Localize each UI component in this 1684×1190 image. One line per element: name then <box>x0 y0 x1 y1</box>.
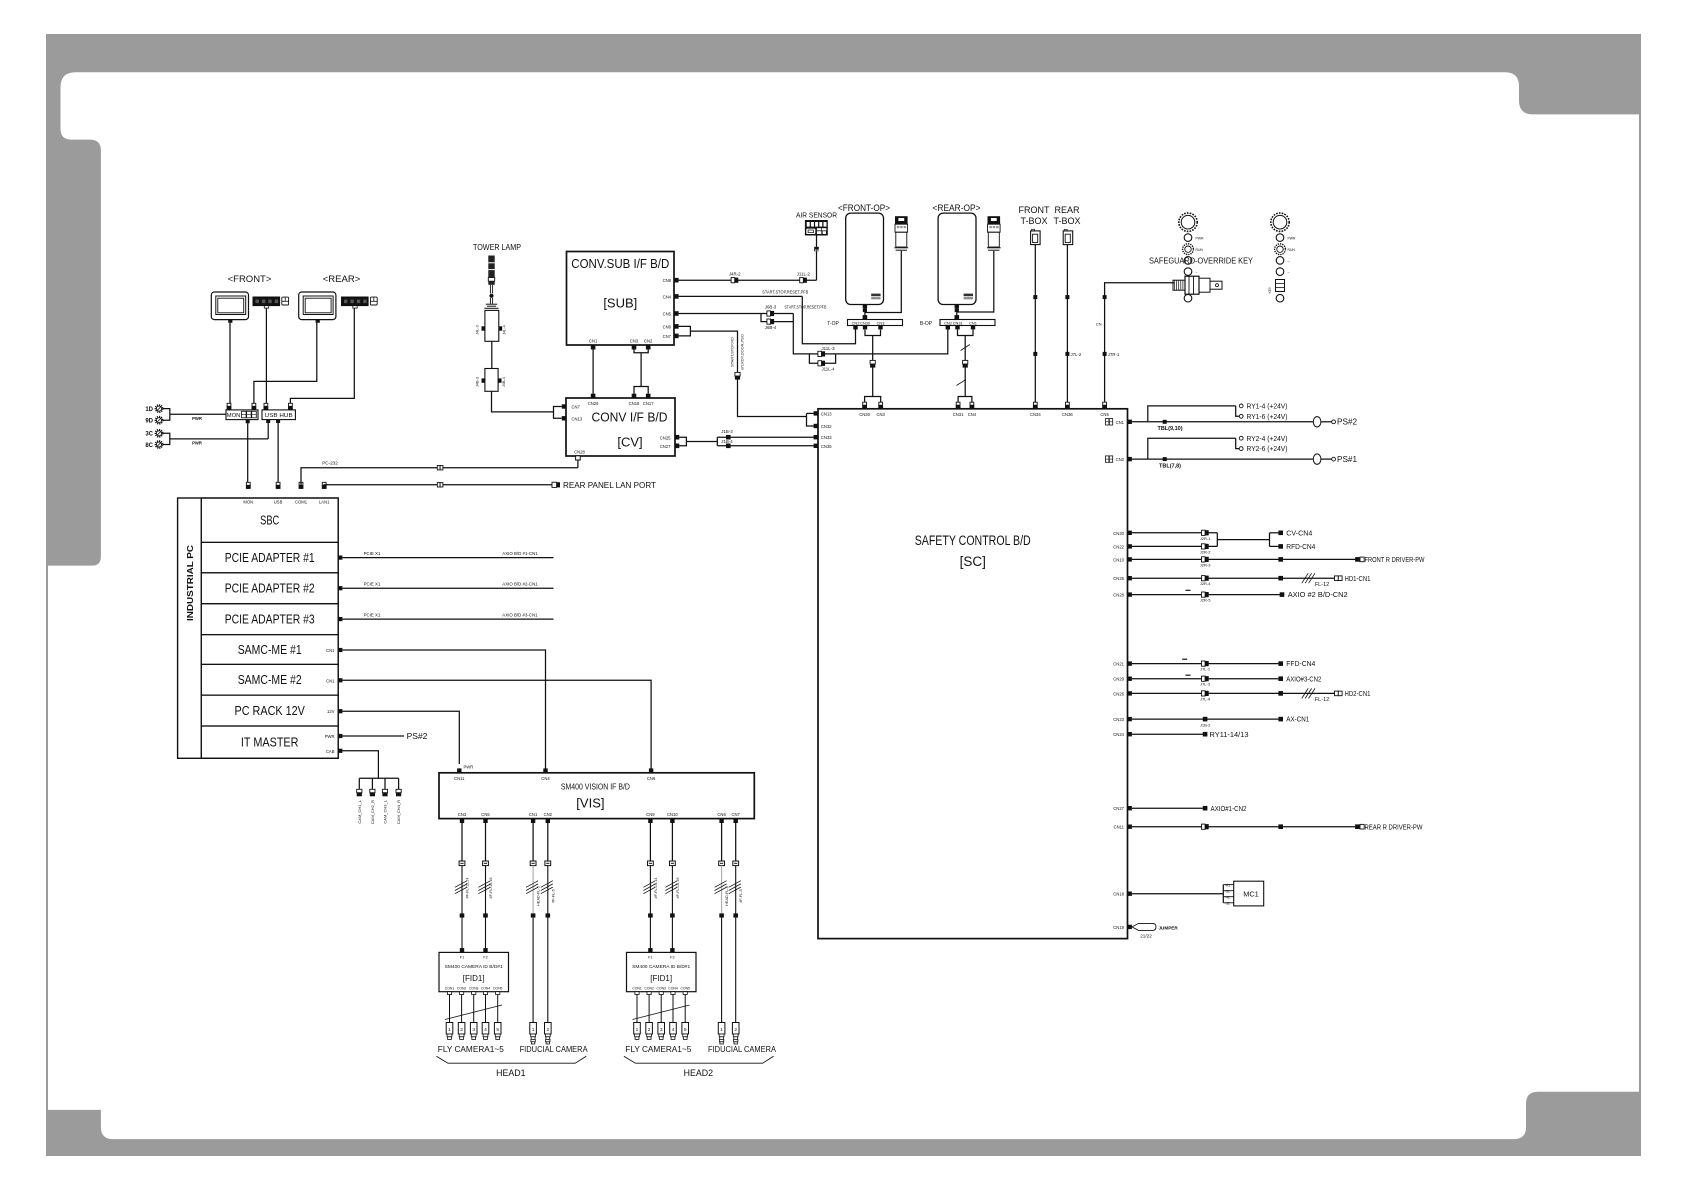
svg-text:PS#1: PS#1 <box>1337 455 1357 464</box>
rear mouse <box>370 297 377 305</box>
svg-text:CAM_CH1_L: CAM_CH1_L <box>357 799 362 823</box>
svg-text:CN17: CN17 <box>643 401 654 406</box>
svg-text:RY11-14/13: RY11-14/13 <box>1210 730 1249 739</box>
svg-text:J4B-3: J4B-3 <box>476 377 480 387</box>
svg-text:CN28: CN28 <box>574 450 585 455</box>
svg-text:J6B-4: J6B-4 <box>765 325 777 330</box>
rear teach pendant <box>987 216 1001 250</box>
svg-text:AXIO#3-CN2: AXIO#3-CN2 <box>1286 674 1321 683</box>
wire SC CN26 to HD2-CN1 <box>1113 688 1370 703</box>
svg-text:CAM_CH3_L: CAM_CH3_L <box>383 799 388 823</box>
svg-text:CN6: CN6 <box>663 324 672 329</box>
wire SC CN21 to FFD-CN4 <box>1113 659 1315 671</box>
PC row SBC <box>201 498 338 542</box>
wire SC CN18 to MC1 <box>1113 881 1263 906</box>
wire VIS CN9 to FID2 F1 <box>643 823 658 949</box>
svg-text:CON5: CON5 <box>493 987 503 991</box>
terminal 1D <box>145 405 162 413</box>
svg-text:J1B-3: J1B-3 <box>721 429 733 434</box>
svg-text:CON1: CON1 <box>632 987 642 991</box>
rear key switch symbol small <box>1268 280 1285 294</box>
svg-text:-32: -32 <box>1225 902 1230 906</box>
VIS top pin CN11 PWR <box>454 764 473 781</box>
svg-text:[FID1]: [FID1] <box>650 974 672 983</box>
svg-text:CON4: CON4 <box>481 987 491 991</box>
svg-text:CN25: CN25 <box>1113 576 1124 581</box>
svg-text:4: 4 <box>672 1027 675 1033</box>
svg-text:BY,RDY,DOOR,PSO: BY,RDY,DOOR,PSO <box>740 334 745 370</box>
svg-text:FLY CAMERA1~5: FLY CAMERA1~5 <box>625 1044 691 1054</box>
safeguard key switch symbol <box>1173 276 1222 294</box>
wire USB hub to SBC USB <box>277 423 279 489</box>
svg-text:CN27: CN27 <box>1113 806 1124 811</box>
terminal 8C <box>145 441 162 449</box>
wire SC CN23 to AX-CN1 <box>1113 715 1309 728</box>
svg-text:JUMPER: JUMPER <box>1159 925 1179 930</box>
svg-text:MC1: MC1 <box>1243 890 1259 899</box>
svg-text:T-OP: T-OP <box>827 321 839 327</box>
T-OP connector bar <box>827 308 902 329</box>
svg-text:INDUSTRIAL PC: INDUSTRIAL PC <box>186 545 195 621</box>
svg-text:START,STOP,RD: START,STOP,RD <box>730 337 735 367</box>
wire SUB CN6/CN7 to SC CN13/CN32 <box>679 326 814 426</box>
wire VIS CN10 to FID2 F2 <box>665 823 680 949</box>
svg-text:HEAD1: HEAD1 <box>496 1068 525 1078</box>
svg-text:CN3: CN3 <box>458 812 467 817</box>
wire CONV CN25/CN27 to SC CN33/CN35 via J1B-3/J1B-4 <box>679 429 813 448</box>
svg-text:4: 4 <box>484 1027 487 1033</box>
SUB pin CN8 <box>663 278 679 283</box>
svg-text:J2R-4: J2R-4 <box>1200 581 1211 586</box>
svg-text:CN8: CN8 <box>663 278 672 283</box>
industrial PC label divider <box>200 498 202 758</box>
svg-text:CN10: CN10 <box>667 812 678 817</box>
svg-text:J4L-4: J4L-4 <box>503 325 507 335</box>
svg-text:REAR PANEL LAN PORT: REAR PANEL LAN PORT <box>563 480 657 490</box>
wire SC CN20/CN22 to CV-CN4 RFD-CN4 <box>1113 528 1315 554</box>
svg-text:SAMC-ME #1: SAMC-ME #1 <box>238 643 302 657</box>
wire safeguard key to SC CN5 <box>1096 283 1174 404</box>
svg-text:CN19: CN19 <box>1113 925 1124 930</box>
MON selector box <box>226 403 258 423</box>
svg-text:IT MASTER: IT MASTER <box>241 735 299 749</box>
VIS bottom pin CN7 <box>732 812 741 823</box>
wire SUB CN1 to CONV CN26 <box>592 350 594 394</box>
fiducial camera 4 head2 <box>732 1023 739 1045</box>
svg-text:USB HUB: USB HUB <box>265 413 293 419</box>
wire VIS CN6 to fiducial camera 3 <box>715 823 730 1023</box>
svg-text:FIDUCIAL CAMERA: FIDUCIAL CAMERA <box>520 1044 588 1054</box>
svg-text:CN35: CN35 <box>821 444 832 449</box>
svg-text:HEAD2: HEAD2 <box>684 1068 713 1078</box>
svg-text:SM400 VISION IF B/D: SM400 VISION IF B/D <box>561 781 630 791</box>
svg-text:RUN: RUN <box>1288 248 1296 252</box>
svg-text:CN30: CN30 <box>860 320 871 325</box>
svg-text:HD2-CN1: HD2-CN1 <box>1345 689 1371 698</box>
svg-text:SM400 CAMERA ID B/D#1: SM400 CAMERA ID B/D#1 <box>632 964 691 969</box>
front monitor <box>211 292 248 323</box>
svg-text:HD1-CN1: HD1-CN1 <box>1345 574 1371 583</box>
fly camera 3 head2 <box>658 1023 665 1040</box>
svg-text:AXIO #2 B/D-CN2: AXIO #2 B/D-CN2 <box>1288 590 1348 599</box>
PC row SAMC-ME #1 <box>201 635 338 665</box>
svg-text:SM400 CAMERA ID B/D#1: SM400 CAMERA ID B/D#1 <box>445 964 504 969</box>
svg-text:CN30: CN30 <box>859 412 870 417</box>
CONV.SUB I/F B/D board <box>567 252 675 346</box>
SC top pin CN34 <box>1030 402 1041 417</box>
svg-text:PS#2: PS#2 <box>1337 418 1357 427</box>
wire 1D/9D PWR to MON splitter <box>163 409 226 421</box>
svg-text:CN36: CN36 <box>1062 412 1073 417</box>
PC row PCIE ADAPTER #3 <box>201 604 338 635</box>
wire FRONT T-BOX to SC CN34 <box>1033 245 1037 404</box>
svg-text:SBC: SBC <box>260 514 279 528</box>
svg-text:2: 2 <box>734 1027 737 1033</box>
SC left pin CN33 <box>814 435 833 440</box>
svg-text:CN7: CN7 <box>732 812 741 817</box>
svg-text:-A1: -A1 <box>1225 883 1230 887</box>
front mouse <box>282 297 289 305</box>
svg-text:CN23: CN23 <box>1113 717 1124 722</box>
svg-text:1: 1 <box>636 1027 639 1033</box>
safeguard button stack rear <box>1271 213 1296 302</box>
svg-text:5: 5 <box>496 1027 499 1033</box>
wire B-OP CN31/CN1 to SC CN31/CN4 <box>957 330 974 404</box>
wire PCIE adapter #3 to AXIO B/D #3 <box>338 613 553 622</box>
SC top pin CN30 <box>859 402 870 417</box>
camera channel connector CAM_CH4_R <box>396 778 401 824</box>
rear keyboard <box>341 297 369 309</box>
svg-text:1D: 1D <box>145 407 153 413</box>
svg-text:CONV.SUB I/F B/D: CONV.SUB I/F B/D <box>571 256 669 271</box>
svg-text:F2: F2 <box>483 956 487 960</box>
svg-text:CN2: CN2 <box>1116 457 1125 462</box>
svg-text:FL-12: FL-12 <box>1315 697 1329 703</box>
svg-text:FIDUCIAL CAMERA: FIDUCIAL CAMERA <box>708 1044 776 1054</box>
svg-text:START,STOP,RESET,PFB: START,STOP,RESET,PFB <box>784 305 826 310</box>
svg-text:CN3: CN3 <box>877 412 886 417</box>
svg-text:<FRONT>: <FRONT> <box>228 274 272 285</box>
svg-text:CN1: CN1 <box>326 648 335 653</box>
SC CN2 relay net PS#1 <box>1106 434 1358 470</box>
svg-text:AXIO B/D #3-CN1: AXIO B/D #3-CN1 <box>502 613 538 618</box>
fiducial camera 3 head2 <box>718 1023 725 1045</box>
wire rear monitor to MON splitter <box>254 323 317 407</box>
camera channel connector CAM_CH2_R <box>370 778 375 824</box>
SC left pin CN35 <box>814 444 833 449</box>
wire tower lamp to CONV bracket <box>492 391 554 412</box>
svg-text:J7L-2: J7L-2 <box>1071 352 1082 357</box>
svg-text:J4L-3: J4L-3 <box>476 325 480 335</box>
svg-text:HEAD-FL-5: HEAD-FL-5 <box>537 886 541 906</box>
svg-text:CON2: CON2 <box>644 987 654 991</box>
svg-text:CN11: CN11 <box>454 776 465 781</box>
tower lamp connector box J4L <box>476 310 507 341</box>
CONV top pin CN17 <box>643 394 654 406</box>
FRONT T-BOX <box>1019 205 1050 245</box>
svg-text:CN7: CN7 <box>572 405 581 410</box>
SUB bottom pin CN3 <box>630 338 639 349</box>
svg-text:CN22: CN22 <box>1113 544 1124 549</box>
wire VIS CN3 to FID1 F1 <box>455 823 470 949</box>
svg-text:FLY CAMERA1~5: FLY CAMERA1~5 <box>438 1044 504 1054</box>
SC top pin CN5 <box>1100 402 1109 417</box>
svg-text:KEY: KEY <box>1268 286 1272 293</box>
svg-text:TBL(7,8): TBL(7,8) <box>1159 463 1181 469</box>
CONV bottom pin CN28 <box>574 450 585 461</box>
CONV top pin CN18 <box>629 394 640 406</box>
svg-text:J7L-4: J7L-4 <box>1200 696 1211 701</box>
svg-text:PCIE X1: PCIE X1 <box>364 551 381 556</box>
svg-text:CN13: CN13 <box>572 417 583 422</box>
svg-text:3: 3 <box>472 1027 475 1033</box>
safeguard button stack front <box>1179 213 1204 302</box>
svg-text:–: – <box>1288 259 1290 263</box>
svg-text:2: 2 <box>460 1027 463 1033</box>
svg-text:CN20: CN20 <box>1113 531 1124 536</box>
svg-text:CN24: CN24 <box>1113 732 1124 737</box>
svg-text:<FRONT-OP>: <FRONT-OP> <box>838 203 890 214</box>
svg-text:–: – <box>1196 270 1198 274</box>
svg-text:F1: F1 <box>648 956 652 960</box>
wire SC CN29 to AXIO#3-CN2 <box>1113 674 1321 686</box>
VIS bottom pin CN9 <box>646 812 655 823</box>
svg-text:HEAD-FL-5: HEAD-FL-5 <box>725 886 729 906</box>
svg-text:J1B-4: J1B-4 <box>721 439 733 444</box>
wire VIS CN5 to FID1 F2 <box>478 823 493 949</box>
front keyboard <box>253 297 281 309</box>
svg-text:J1B-2: J1B-2 <box>1200 722 1211 727</box>
svg-text:REAR R DRIVER-PW: REAR R DRIVER-PW <box>1365 822 1423 831</box>
svg-text:PCIE ADAPTER #1: PCIE ADAPTER #1 <box>225 551 315 565</box>
svg-text:CN31: CN31 <box>953 412 964 417</box>
fiducial camera 1 head1 <box>530 1023 537 1045</box>
svg-text:FRONT: FRONT <box>1019 205 1050 215</box>
svg-text:3C: 3C <box>145 432 153 438</box>
svg-text:PCIE X1: PCIE X1 <box>364 613 381 618</box>
svg-text:CN4: CN4 <box>968 412 977 417</box>
svg-text:PCIE ADAPTER #3: PCIE ADAPTER #3 <box>225 613 315 627</box>
svg-text:CN5: CN5 <box>663 312 672 317</box>
svg-text:TBL(9,10): TBL(9,10) <box>1157 426 1182 432</box>
SC top pin CN31 <box>953 402 964 417</box>
svg-text:CN6: CN6 <box>647 776 656 781</box>
svg-text:COM1: COM1 <box>295 499 308 504</box>
wire PCIE adapter #2 to AXIO B/D #2 <box>338 582 553 591</box>
svg-text:CN: CN <box>1096 322 1102 327</box>
svg-text:J2R-1: J2R-1 <box>1200 536 1211 541</box>
USB HUB box <box>262 403 295 423</box>
svg-text:J6B-3: J6B-3 <box>765 305 777 310</box>
PC row IT MASTER <box>201 726 338 758</box>
PC row PCIE ADAPTER #2 <box>201 573 338 604</box>
svg-text:CN1: CN1 <box>326 678 335 683</box>
svg-text:CN18: CN18 <box>629 401 640 406</box>
svg-text:12V: 12V <box>327 709 335 714</box>
svg-text:RFD-CN4: RFD-CN4 <box>1286 542 1315 551</box>
svg-text:CN18: CN18 <box>1113 892 1124 897</box>
fly camera 4 head1 <box>482 1023 489 1040</box>
CONV left bracket CN7/CN13 <box>554 404 583 421</box>
svg-text:21/22: 21/22 <box>1140 934 1152 939</box>
svg-text:PWR: PWR <box>1288 236 1296 240</box>
SBC top connectors MON USB COM1 LAN1 <box>243 482 330 504</box>
svg-text:CN6: CN6 <box>717 812 726 817</box>
svg-text:PWR: PWR <box>464 764 474 769</box>
svg-text:2: 2 <box>648 1027 651 1033</box>
wire T-OP CN30/CN3 to SC CN30/CN3 <box>865 330 881 404</box>
VIS bottom pin CN10 <box>667 812 678 823</box>
wire SAMC-ME #1 CN1 to VIS CN4 <box>326 648 545 769</box>
HEAD2 bracket <box>624 1056 774 1063</box>
CONV top pin CN26 <box>588 394 599 406</box>
svg-text:1: 1 <box>532 1027 535 1033</box>
tower lamp <box>473 243 521 308</box>
svg-text:CN21: CN21 <box>1113 662 1124 667</box>
SC top pin CN3 <box>877 402 886 417</box>
SUB bottom pin CN2 <box>644 338 653 349</box>
svg-text:START,STOP,RESET,PFB: START,STOP,RESET,PFB <box>762 289 808 294</box>
svg-text:CN25: CN25 <box>660 435 671 440</box>
VIS bottom pin CN3 <box>458 812 467 823</box>
wire 3C/8C PWR to USB HUB <box>163 421 268 445</box>
svg-text:J2R-2: J2R-2 <box>1200 549 1211 554</box>
svg-text:CN9: CN9 <box>646 812 655 817</box>
svg-text:CN3: CN3 <box>630 338 639 343</box>
svg-text:CN29: CN29 <box>1113 677 1124 682</box>
svg-text:[FID1]: [FID1] <box>463 974 485 983</box>
svg-text:SAFETY CONTROL B/D: SAFETY CONTROL B/D <box>915 533 1031 548</box>
VIS top pin CN6 <box>647 768 656 781</box>
FRONT-OP panel <box>838 203 890 308</box>
svg-text:9D: 9D <box>145 419 153 425</box>
REAR T-BOX <box>1053 205 1080 245</box>
svg-text:FRONT R DRIVER-PW: FRONT R DRIVER-PW <box>1365 555 1425 564</box>
svg-text:AXIO B/D #2-CN1: AXIO B/D #2-CN1 <box>502 582 538 587</box>
svg-text:CAM_CH2_R: CAM_CH2_R <box>370 800 375 824</box>
svg-text:CN2: CN2 <box>944 320 952 325</box>
SC top pin CN36 <box>1062 402 1073 417</box>
tower lamp connector box J4B <box>476 369 506 392</box>
svg-text:1: 1 <box>720 1027 723 1033</box>
SUB pin CN6 <box>663 324 679 329</box>
svg-text:CON1: CON1 <box>445 987 455 991</box>
svg-text:PCIE X1: PCIE X1 <box>364 582 381 587</box>
svg-text:CN11: CN11 <box>1114 825 1125 830</box>
svg-text:PWR: PWR <box>325 734 335 739</box>
fly camera 2 head2 <box>646 1023 653 1040</box>
fly camera 5 head1 <box>494 1023 501 1040</box>
SAFETY CONTROL B/D board <box>818 409 1128 939</box>
svg-text:PC-232: PC-232 <box>322 460 338 465</box>
svg-text:AXIO B/D #1-CN1: AXIO B/D #1-CN1 <box>502 551 538 556</box>
wire SC CN10 to FRONT R DRIVER-PW <box>1113 555 1424 567</box>
svg-text:AXIO#1-CN2: AXIO#1-CN2 <box>1211 804 1247 813</box>
svg-text:CN1: CN1 <box>529 812 538 817</box>
fly camera 3 head1 <box>470 1023 477 1040</box>
svg-text:J4R-2: J4R-2 <box>729 271 741 276</box>
svg-text:[SUB]: [SUB] <box>603 296 637 311</box>
VIS bottom pin CN6 <box>717 812 726 823</box>
wire MON splitter to SBC MON <box>247 423 249 489</box>
wire CN5 branch to B-OP CN2 via J11L-3/J11L-4 <box>793 322 948 372</box>
svg-text:CN32: CN32 <box>821 424 832 429</box>
svg-text:T-BOX: T-BOX <box>1053 216 1080 226</box>
svg-text:J2R-3: J2R-3 <box>1200 562 1211 567</box>
wire SBC LAN1 to REAR PANEL LAN PORT <box>324 480 657 490</box>
svg-text:CN1: CN1 <box>969 320 977 325</box>
svg-text:CN27: CN27 <box>660 444 671 449</box>
fly camera 5 head2 <box>682 1023 689 1040</box>
svg-text:CN26: CN26 <box>1113 691 1124 696</box>
svg-text:CV-CN4: CV-CN4 <box>1286 528 1312 537</box>
svg-text:CN28: CN28 <box>1113 593 1124 598</box>
svg-text:CN4: CN4 <box>541 776 550 781</box>
wire PC RACK 12V to VIS PWR <box>327 709 459 764</box>
svg-text:CAM_CH4_R: CAM_CH4_R <box>396 800 401 824</box>
wire rear pendant to B-OP <box>957 251 994 320</box>
fly camera 4 head2 <box>670 1023 677 1040</box>
svg-text:1: 1 <box>448 1027 451 1033</box>
SUB bottom pin CN1 <box>589 338 598 349</box>
SC top pin CN4 <box>968 402 977 417</box>
svg-text:PS#2: PS#2 <box>407 731 428 741</box>
svg-text:CN31: CN31 <box>953 320 963 325</box>
svg-text:REAR: REAR <box>1054 205 1080 215</box>
svg-text:5: 5 <box>684 1027 687 1033</box>
wire SUB CN8 to AIR SENSOR via J4R-2 J11L-2 <box>679 251 817 283</box>
SC CN19 jumper <box>1113 923 1178 938</box>
svg-text:CN4: CN4 <box>663 294 672 299</box>
air sensor <box>796 212 837 251</box>
svg-text:F2: F2 <box>670 956 674 960</box>
wire CONV CN28 down to PC-232 <box>577 460 579 468</box>
terminal 3C <box>145 430 162 438</box>
svg-text:J7L-3: J7L-3 <box>1200 682 1211 687</box>
svg-text:J11L-4: J11L-4 <box>821 366 835 371</box>
wire SC CN24 to RY11-14/13 <box>1113 730 1248 739</box>
svg-text:2: 2 <box>546 1027 549 1033</box>
svg-text:RUN: RUN <box>1196 248 1204 252</box>
svg-text:PC RACK 12V: PC RACK 12V <box>235 704 306 718</box>
svg-text:CN3: CN3 <box>877 320 885 325</box>
svg-text:CN33: CN33 <box>821 435 832 440</box>
svg-text:SAFEGUARD-OVERRIDE KEY: SAFEGUARD-OVERRIDE KEY <box>1149 256 1253 266</box>
svg-text:MON: MON <box>227 413 241 419</box>
svg-text:CN2: CN2 <box>852 320 860 325</box>
SM400 VISION IF B/D board <box>439 773 754 819</box>
svg-text:<REAR-OP>: <REAR-OP> <box>933 203 981 214</box>
svg-text:CN5: CN5 <box>1100 412 1109 417</box>
svg-text:T-BOX: T-BOX <box>1020 216 1047 226</box>
svg-text:F1: F1 <box>460 956 464 960</box>
SM400 CAMERA ID board FID1 head2 <box>627 948 697 1022</box>
svg-text:-42: -42 <box>1225 895 1230 899</box>
svg-text:TOWER LAMP: TOWER LAMP <box>473 243 521 252</box>
wire SC CN25 to HD1-CN1 <box>1113 573 1370 588</box>
svg-text:CAB: CAB <box>326 749 335 754</box>
wire SUB CN3/CN2 to CONV CN18/CN17 <box>634 350 648 394</box>
camera channel connector CAM_CH1_L <box>357 778 362 823</box>
svg-text:USB: USB <box>274 499 283 504</box>
svg-text:CN5: CN5 <box>481 812 490 817</box>
wire SAMC-ME #2 CN1 to VIS CN6 <box>326 678 651 768</box>
svg-text:CN13: CN13 <box>821 411 832 416</box>
svg-text:J11L-3: J11L-3 <box>821 346 835 351</box>
svg-text:J7L-1: J7L-1 <box>1200 667 1211 672</box>
svg-text:FL-12: FL-12 <box>1315 582 1329 588</box>
svg-text:–: – <box>1288 270 1290 274</box>
